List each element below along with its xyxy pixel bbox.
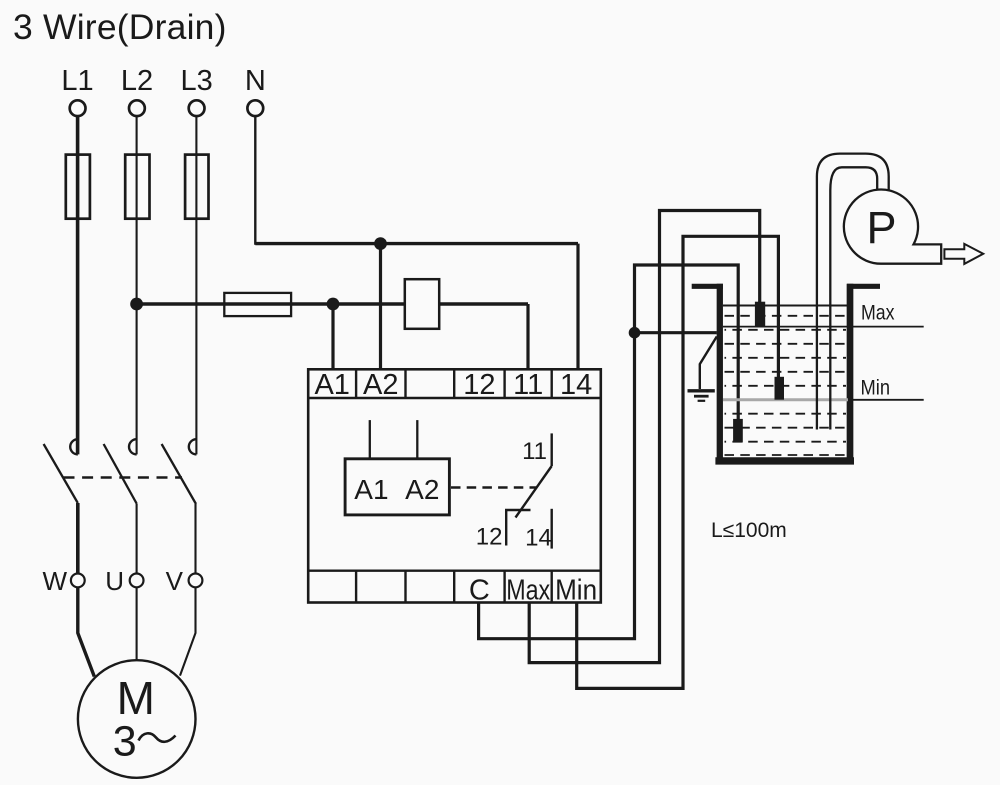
relay top terminal row line [308,397,601,399]
contactor pole 3 blade [162,444,196,504]
svg-text:A1: A1 [314,369,349,401]
contact 12 [506,510,530,546]
svg-text:L3: L3 [180,65,212,97]
tank left wall [717,284,723,461]
terminal N [247,100,263,116]
electrode max tip [755,302,765,327]
svg-text:Min: Min [861,377,891,400]
svg-text:Min: Min [555,575,597,607]
svg-text:C: C [469,575,490,607]
terminal W [71,574,85,588]
tank right wall [847,284,854,461]
terminal L2 [129,100,145,116]
Max level line [723,326,924,328]
svg-text:Max: Max [506,575,550,607]
wire junction to A2 [379,244,382,370]
wire L2 phase [136,116,138,454]
terminal U [130,574,144,588]
contactor pole 2 fixed contact [129,439,137,454]
contactor pole 1 blade [44,444,78,503]
wire pole 2 to U [136,504,138,574]
wire Max to max electrode [529,211,760,663]
suction pipe inner line [830,167,877,429]
svg-text:M: M [117,672,155,724]
pump P body [844,190,941,264]
svg-text:A1: A1 [354,474,388,505]
fuse F2 [125,155,149,219]
Min level line [853,399,924,401]
fuse F3 [185,155,208,219]
motor M1 [78,660,196,778]
contact 11 lead [551,433,553,466]
water surface line [723,305,847,307]
tank right flange [847,284,880,289]
wire Min to min electrode [577,236,779,688]
svg-text:U: U [105,566,124,596]
terminal V [189,574,203,588]
device box on control wire [405,279,439,329]
contactor pole 2 blade [104,444,137,504]
svg-text:11: 11 [513,369,543,401]
wire N drop [254,116,256,245]
fuse F1 [66,155,90,219]
svg-text:P: P [866,202,896,253]
node A1 junction [327,298,340,311]
dashed actuation link [451,486,537,488]
svg-text:3 Wire(Drain): 3 Wire(Drain) [13,7,227,47]
electrode min tip [775,377,785,400]
ground symbol [688,391,715,401]
svg-text:11: 11 [522,438,547,465]
coil stub A2 [416,420,418,459]
contact blade [516,466,552,518]
svg-text:A2: A2 [363,369,398,401]
svg-text:L≤100m: L≤100m [711,519,787,542]
electrode common tip [733,419,743,443]
relay top terminal dividers [356,369,552,398]
wire W to motor [78,587,95,676]
wire N to terminal 14 [576,244,579,370]
node ground branch junction [629,327,641,339]
relay U1 outline [308,369,601,602]
relay bottom terminal row line [308,570,601,572]
svg-text:14: 14 [560,369,592,401]
svg-text:12: 12 [463,369,495,401]
svg-text:W: W [42,566,67,596]
wire U to motor [136,587,138,660]
wire control tap L2 to relay [137,302,528,305]
wire L1 phase [76,116,80,454]
node N-A2 junction [374,237,387,250]
terminal L3 [189,100,205,116]
suction pipe outer line [817,154,889,430]
tank left flange [692,284,723,289]
node L2 tap junction [130,298,143,311]
svg-text:L1: L1 [61,65,93,97]
wire pole 3 to V [194,504,196,574]
svg-text:V: V [166,566,184,596]
svg-text:14: 14 [525,525,552,552]
tank bottom [715,457,854,464]
coil box A1-A2 [345,459,449,515]
outlet arrow [944,244,983,264]
wire V to motor [180,587,196,675]
coil stub A1 [369,420,371,459]
fuse F4 control [224,293,291,316]
Min level line gray [723,398,848,401]
wire L3 phase [195,116,197,454]
svg-text:3: 3 [113,718,137,766]
svg-text:A2: A2 [405,474,439,505]
wire junction to tank [635,331,717,334]
contactor pole 3 fixed contact [189,439,197,454]
svg-text:Max: Max [861,302,895,325]
wire pole 1 to W [76,503,80,574]
tank water hatching [725,316,847,455]
contactor dashed link [64,476,183,478]
terminal L1 [70,100,86,116]
contactor pole 1 fixed contact [70,439,78,454]
wire N horizontal to relay [255,242,578,245]
contact 14 lead [551,509,553,549]
wire control to terminal 11 [526,304,529,369]
svg-text:12: 12 [476,524,503,551]
ground lead [700,337,717,390]
svg-text:L2: L2 [121,65,153,97]
wire C to common electrode [479,265,739,639]
wire junction to A1 [331,304,334,369]
svg-text:N: N [245,65,266,97]
motor label tilde [139,733,176,741]
relay bottom terminal dividers [356,571,552,603]
